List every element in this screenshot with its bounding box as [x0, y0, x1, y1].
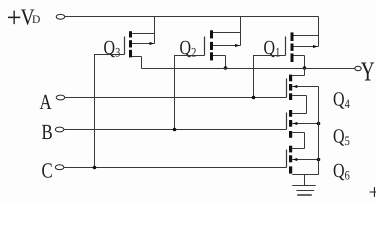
transistor Q2 [205, 30, 241, 60]
wire Q1 gate to A [254, 56, 286, 98]
wire Y bus [142, 68, 355, 70]
wire input A [65, 97, 287, 99]
svg-text:Q1: Q1 [264, 37, 281, 60]
junction Q2 drain on Y bus [224, 66, 228, 70]
wire input C [64, 167, 287, 169]
node C terminal [55, 165, 64, 170]
svg-text:+: + [7, 2, 22, 34]
node A terminal [56, 95, 65, 100]
label Q6 [333, 160, 350, 183]
svg-text:Q4: Q4 [333, 89, 350, 112]
wire Q4 source to Q5 drain [306, 96, 308, 114]
wire Q2 drain down to Y bus [225, 56, 227, 69]
wire input B [64, 129, 287, 131]
wire Q3 drain down to Y bus [141, 57, 143, 69]
label + fragment at lower right [369, 180, 376, 204]
svg-text:D: D [32, 14, 40, 26]
wire VD rail [65, 16, 319, 18]
node VD terminal [56, 14, 65, 19]
junction C and Q3 gate [93, 166, 97, 170]
wire Q4 drain up to Y bus [304, 69, 306, 76]
transistor Q6 [287, 146, 319, 175]
label +VD [7, 2, 41, 34]
wire Q1 source to rail [318, 17, 320, 47]
wire Q5 source to Q6 drain [304, 133, 306, 149]
junction Q5 body on body bus [317, 122, 321, 126]
node B terminal [55, 127, 64, 132]
wire Q1 drain down to Y bus [304, 56, 306, 69]
svg-text:C: C [42, 158, 53, 182]
transistor Q1 [286, 32, 319, 62]
wire Q3 source to rail [154, 17, 156, 44]
transistor Q5 [287, 110, 319, 138]
label Q1 [264, 37, 281, 60]
svg-text:Q6: Q6 [333, 160, 350, 183]
label B [42, 120, 53, 144]
wire Q2 source to rail [240, 17, 242, 46]
svg-text:Q3: Q3 [104, 37, 121, 60]
junction Q1 and Q4 drains on Y bus [303, 66, 307, 70]
junction Q6 body on body bus [317, 158, 321, 162]
wire Q3 gate to C [95, 55, 125, 168]
node Y terminal [355, 66, 361, 70]
svg-text:Y: Y [361, 56, 375, 87]
label Q4 [333, 89, 350, 112]
ground [292, 186, 316, 196]
junction B and Q2 gate [173, 128, 177, 132]
svg-text:A: A [40, 90, 52, 114]
label Q3 [104, 37, 121, 60]
transistor Q3 [125, 31, 155, 57]
label Q2 [180, 37, 197, 60]
wire body bus [318, 87, 320, 175]
wire ground stem [304, 175, 306, 186]
label Y [361, 56, 375, 87]
svg-text:Q5: Q5 [333, 125, 350, 148]
svg-text:B: B [42, 120, 53, 144]
svg-text:+: + [369, 180, 376, 203]
wire Q2 gate to B [175, 56, 205, 130]
svg-text:Q2: Q2 [180, 37, 197, 60]
junction A and Q1 gate [252, 96, 256, 100]
transistor Q4 [287, 75, 319, 100]
label Q5 [333, 125, 350, 148]
label A [40, 90, 52, 114]
label C [42, 158, 53, 182]
